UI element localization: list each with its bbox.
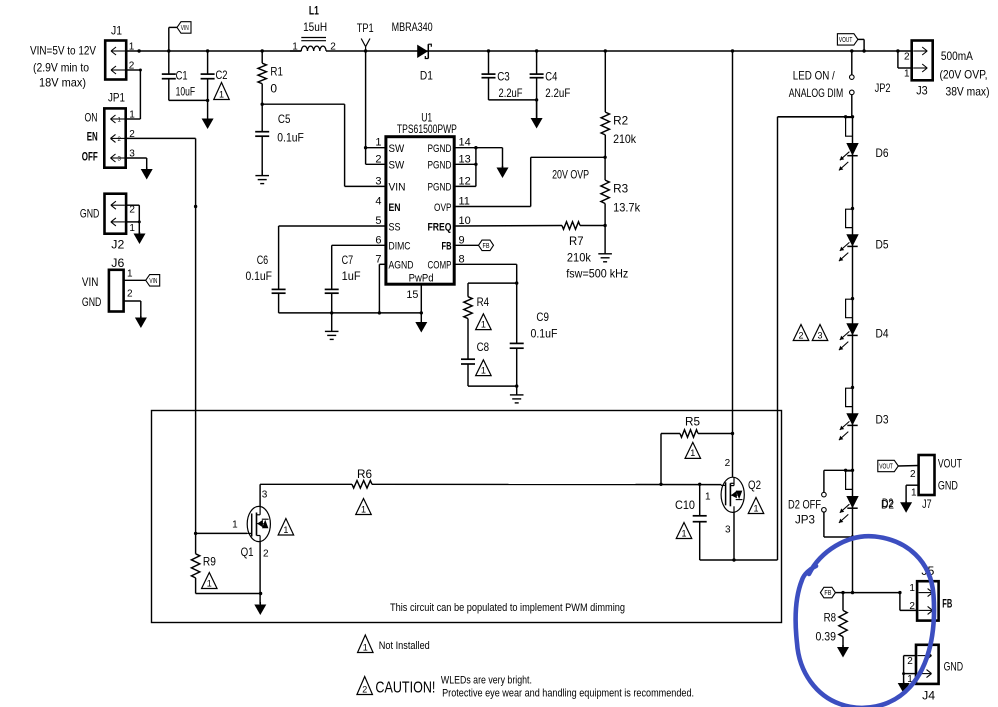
- wire - C3 bottom to C4 bottom: [489, 98, 539, 101]
- net label VOUT flag at top right: [837, 34, 865, 53]
- svg-text:VOUT: VOUT: [879, 464, 893, 471]
- svg-text:2: 2: [910, 469, 916, 480]
- wire - J3 pin1 to rail: [896, 49, 912, 68]
- svg-text:1: 1: [207, 578, 212, 588]
- node EN junction: [194, 205, 197, 208]
- wire - JP1 pin3 to ground: [126, 158, 147, 169]
- resistor jog above D6: [846, 118, 853, 137]
- capacitor C3 2.2uF: [482, 49, 523, 100]
- svg-text:1: 1: [681, 528, 686, 538]
- wire - Q1 drain to R6: [260, 484, 352, 506]
- svg-text:9: 9: [459, 234, 465, 246]
- svg-text:J3: J3: [916, 84, 928, 98]
- warning triangle 1 at C10: [676, 523, 692, 539]
- node JP3 top junction: [844, 469, 854, 472]
- svg-text:J4: J4: [922, 689, 935, 703]
- svg-text:1: 1: [129, 223, 135, 234]
- connector J7 VOUT/GND: [910, 455, 962, 511]
- svg-text:OFF: OFF: [82, 150, 98, 164]
- svg-text:C2: C2: [216, 68, 228, 82]
- ground arrow at J6 pin2: [135, 316, 147, 328]
- U1 PwPd pad label: [406, 273, 433, 301]
- svg-text:JP2: JP2: [875, 81, 891, 95]
- svg-text:1: 1: [911, 487, 917, 498]
- svg-text:PwPd: PwPd: [409, 273, 434, 285]
- svg-text:J6: J6: [111, 256, 124, 270]
- svg-text:D1: D1: [420, 68, 433, 82]
- U1 left pin numbers 1-7: [375, 137, 381, 266]
- wire - PGND pins 14,13,12 tied: [454, 146, 477, 186]
- wire - R1 bottom to U1 VIN pin: [262, 104, 386, 186]
- svg-text:38V max): 38V max): [946, 85, 990, 99]
- svg-text:J2: J2: [111, 237, 124, 251]
- capacitor C10 (not installed): [675, 483, 707, 560]
- svg-text:(20V OVP,: (20V OVP,: [940, 67, 988, 81]
- warning triangle note 1: [358, 635, 374, 653]
- svg-text:C10: C10: [675, 498, 695, 512]
- svg-text:R4: R4: [477, 295, 490, 309]
- svg-text:D3: D3: [876, 412, 889, 426]
- resistor R6 (not installed): [352, 467, 372, 488]
- text PWM dimming note: [390, 602, 625, 614]
- warning triangle 1 at R6: [356, 499, 372, 515]
- svg-text:VIN: VIN: [149, 278, 157, 285]
- svg-text:1: 1: [481, 319, 486, 329]
- wire - J4 pins tied to ground: [902, 656, 916, 683]
- resistor jog above D2: [846, 471, 853, 489]
- warning triangle 1 at R4: [476, 314, 492, 330]
- svg-text:D5: D5: [876, 238, 889, 252]
- svg-text:13: 13: [459, 153, 471, 165]
- svg-text:3: 3: [118, 157, 122, 163]
- LED D6: [839, 143, 889, 170]
- LED D4: [839, 323, 889, 350]
- svg-text:FB: FB: [824, 590, 831, 597]
- svg-text:1: 1: [481, 365, 486, 375]
- svg-text:VIN: VIN: [82, 275, 99, 289]
- resistor jog above D4: [846, 299, 853, 318]
- wire - COMP node to R4 branch: [468, 283, 517, 297]
- svg-text:PGND: PGND: [428, 160, 452, 172]
- wire - gate wire to Q1: [196, 532, 248, 534]
- svg-text:8: 8: [459, 253, 465, 265]
- resistor R7 210k: [454, 222, 628, 281]
- svg-text:R3: R3: [613, 181, 628, 195]
- node above D4: [851, 297, 854, 300]
- LED string wire: [852, 117, 854, 593]
- connector J2 GND: [80, 194, 135, 252]
- svg-text:Q2: Q2: [748, 478, 761, 492]
- wire - C1 bottom to C2 bottom: [169, 99, 210, 102]
- diode D1 MBRA340 schottky: [392, 20, 434, 82]
- svg-text:L1: L1: [309, 3, 319, 17]
- ground arrow at Q1 source: [254, 602, 266, 615]
- svg-text:SW: SW: [389, 160, 405, 172]
- PWM dimming circuit box: [152, 411, 782, 623]
- svg-text:0: 0: [270, 81, 277, 95]
- svg-text:R1: R1: [270, 64, 283, 78]
- svg-text:J7: J7: [922, 497, 932, 511]
- connector JP1 ON/EN/OFF: [82, 91, 135, 168]
- svg-text:C7: C7: [342, 253, 354, 267]
- svg-text:CAUTION!: CAUTION!: [375, 679, 435, 696]
- svg-text:1: 1: [690, 448, 695, 458]
- svg-text:VOUT: VOUT: [938, 457, 962, 471]
- svg-text:C4: C4: [545, 69, 557, 83]
- warning triangle 1 at C8: [476, 360, 492, 376]
- svg-text:1: 1: [292, 41, 298, 52]
- LED D5: [839, 234, 889, 261]
- svg-text:6: 6: [375, 234, 381, 246]
- node R1/C5/VIN junction: [261, 103, 264, 106]
- ground arrow at J4: [898, 682, 910, 694]
- capacitor C7 1uF: [325, 245, 386, 313]
- node JP3 bottom junction: [851, 535, 854, 538]
- IC U1 TPS61500PWP: [386, 111, 457, 285]
- svg-text:2: 2: [907, 656, 913, 667]
- resistor jog above D5: [846, 209, 853, 227]
- svg-text:3: 3: [817, 330, 822, 340]
- svg-text:fsw=500 kHz: fsw=500 kHz: [566, 267, 628, 281]
- transistor Q2 (not installed): [705, 458, 761, 536]
- test point TP1: [357, 21, 374, 51]
- svg-text:10: 10: [459, 215, 471, 227]
- warning triangle note 2: [357, 677, 373, 695]
- node R5/gate junction: [659, 483, 662, 486]
- svg-text:2: 2: [362, 684, 367, 694]
- svg-text:C5: C5: [278, 112, 291, 126]
- node VIN junction at J1 pin1: [137, 49, 140, 52]
- node Q1 gate junction: [194, 532, 197, 535]
- wire - R9 bottom to Q1 source: [196, 593, 261, 595]
- svg-text:12: 12: [459, 175, 471, 187]
- svg-text:0.1uF: 0.1uF: [277, 130, 304, 144]
- ground arrow at J2: [134, 232, 146, 244]
- wire - R4 to C8: [467, 319, 469, 360]
- svg-text:5: 5: [375, 215, 381, 227]
- svg-text:GND: GND: [938, 479, 958, 493]
- svg-text:1: 1: [129, 110, 135, 121]
- svg-text:DIMC: DIMC: [389, 241, 411, 253]
- svg-text:D6: D6: [876, 146, 889, 160]
- LED D3: [839, 412, 889, 440]
- svg-text:1: 1: [127, 268, 133, 279]
- svg-text:JP3: JP3: [795, 512, 815, 526]
- svg-text:EN: EN: [87, 130, 98, 144]
- svg-text:2.2uF: 2.2uF: [545, 86, 570, 100]
- svg-text:10uF: 10uF: [176, 85, 196, 99]
- wire - JP1 pin2 EN net to EN column: [126, 138, 196, 206]
- resistor R9 (not installed): [191, 533, 216, 593]
- svg-text:MBRA340: MBRA340: [392, 20, 433, 34]
- ground arrow at U1 pad 15: [415, 313, 427, 333]
- svg-text:14: 14: [459, 137, 471, 149]
- svg-text:TP1: TP1: [357, 21, 374, 35]
- net label FB flag at U1 pin 9: [454, 240, 493, 251]
- capacitor C5 0.1uF: [255, 104, 304, 175]
- wire - FB node: [841, 591, 901, 594]
- svg-text:20V OVP: 20V OVP: [552, 167, 589, 181]
- wire - AGND pin 7 down to bus: [379, 264, 386, 313]
- wire - analog ground bus: [279, 311, 423, 314]
- ground - earth symbol below C5: [255, 170, 269, 184]
- svg-text:R7: R7: [569, 234, 584, 248]
- wire - COMP pin 8 network: [454, 264, 517, 283]
- svg-text:3: 3: [725, 524, 731, 535]
- svg-text:FB: FB: [442, 241, 452, 253]
- svg-text:15uH: 15uH: [303, 20, 327, 34]
- svg-text:1: 1: [232, 520, 238, 531]
- svg-text:2: 2: [725, 458, 731, 469]
- wire - SW node down to U1 pins 1-2: [364, 51, 386, 164]
- svg-text:ANALOG DIM: ANALOG DIM: [789, 86, 844, 100]
- connector J1: [105, 24, 135, 80]
- svg-text:(2.9V min to: (2.9V min to: [33, 60, 89, 74]
- svg-text:0.39: 0.39: [816, 629, 837, 643]
- node COMP top junction: [515, 281, 518, 284]
- hand-drawn blue circle annotation: [796, 536, 934, 707]
- node above D3: [851, 386, 854, 389]
- wire - main VIN/VOUT top rail: [126, 50, 912, 52]
- svg-text:VIN: VIN: [389, 182, 406, 194]
- svg-text:D4: D4: [876, 326, 889, 340]
- svg-text:Not Installed: Not Installed: [379, 640, 430, 652]
- svg-text:2: 2: [798, 330, 803, 340]
- node R3/R7 junction: [603, 224, 606, 227]
- resistor R1 0 ohm: [258, 49, 283, 104]
- text CAUTION: [375, 679, 435, 696]
- svg-text:2.2uF: 2.2uF: [499, 86, 523, 100]
- svg-text:13.7k: 13.7k: [613, 200, 641, 214]
- svg-text:R8: R8: [824, 610, 837, 624]
- wire - J6 pin1 to VIN flag: [124, 279, 146, 281]
- ground arrow at J7 pin1: [882, 496, 912, 513]
- node above D5: [851, 207, 854, 210]
- wire - PGND to ground arrow: [476, 148, 503, 168]
- connector J6 VIN/GND: [82, 256, 133, 312]
- text Not Installed: [379, 640, 430, 652]
- svg-text:2: 2: [129, 205, 135, 216]
- svg-text:1: 1: [705, 491, 711, 502]
- svg-text:PGND: PGND: [428, 182, 452, 194]
- resistor R8 0.39: [816, 593, 848, 647]
- text 20V OVP: [552, 167, 589, 181]
- text 500mA output note: [940, 49, 990, 98]
- node R2/R3 junction: [603, 156, 606, 159]
- svg-text:C1: C1: [176, 69, 188, 83]
- wire - J6 pin2 to ground: [124, 301, 141, 318]
- svg-text:R5: R5: [685, 414, 700, 428]
- svg-text:1: 1: [219, 89, 224, 99]
- resistor R2 210k: [601, 49, 637, 157]
- capacitor C4 2.2uF: [530, 49, 571, 118]
- wire - LED anode branch to PWM circuit: [778, 115, 855, 560]
- svg-text:2: 2: [118, 137, 122, 143]
- warning triangle 1 at R5: [685, 442, 701, 458]
- svg-text:AGND: AGND: [389, 260, 414, 272]
- ground arrow at PGND: [497, 166, 509, 178]
- svg-text:J1: J1: [111, 24, 122, 38]
- net label VIN flag at J6: [146, 275, 160, 287]
- warning triangle 1 at R9: [202, 573, 218, 589]
- svg-text:11: 11: [459, 196, 470, 208]
- svg-text:GND: GND: [82, 295, 102, 309]
- capacitor C8 (not installed): [461, 340, 489, 364]
- svg-text:FREQ: FREQ: [428, 221, 452, 233]
- svg-text:Protective eye wear and handli: Protective eye wear and handling equipme…: [442, 687, 694, 699]
- svg-text:SW: SW: [389, 143, 405, 155]
- resistor jog above D3: [846, 388, 853, 406]
- connector J3: [904, 41, 933, 98]
- svg-text:R6: R6: [357, 467, 372, 481]
- node TP1/SW junction: [364, 49, 367, 52]
- svg-text:FB: FB: [483, 243, 490, 250]
- ground arrow below C3/C4: [531, 100, 543, 129]
- svg-text:4: 4: [375, 196, 381, 208]
- ground - earth symbol below R3: [598, 226, 612, 262]
- svg-text:ON: ON: [85, 111, 98, 125]
- capacitor C1 10uF: [162, 51, 195, 100]
- wire - VOUT rail down to Q2 drain: [731, 49, 734, 477]
- svg-text:LED ON /: LED ON /: [793, 69, 836, 83]
- wire - C8 bottom to ground node: [468, 364, 517, 386]
- ground - earth symbol below C7: [325, 313, 339, 340]
- svg-text:R2: R2: [613, 113, 628, 127]
- svg-text:2: 2: [330, 42, 336, 53]
- svg-text:1: 1: [283, 525, 288, 535]
- svg-text:GND: GND: [944, 659, 964, 673]
- wire - Q1 source down: [259, 541, 261, 604]
- svg-text:1: 1: [909, 583, 915, 594]
- svg-text:1: 1: [904, 68, 910, 79]
- svg-text:210k: 210k: [567, 250, 592, 264]
- svg-text:JP1: JP1: [108, 91, 125, 105]
- svg-text:0.1uF: 0.1uF: [246, 269, 273, 283]
- wire - J5 pin2 tied to FB: [900, 593, 917, 611]
- ground - earth symbol below C9 node: [510, 386, 524, 403]
- svg-text:2: 2: [263, 549, 269, 560]
- svg-text:C6: C6: [257, 253, 269, 267]
- U1 right pin numbers 8-14: [459, 137, 471, 266]
- warning triangle 1 at C2: [214, 83, 230, 100]
- svg-text:1: 1: [361, 504, 366, 514]
- svg-text:GND: GND: [80, 206, 100, 220]
- inductor L1 15uH: [290, 3, 336, 52]
- svg-text:COMP: COMP: [428, 260, 452, 272]
- svg-text:TPS61500PWP: TPS61500PWP: [397, 122, 457, 136]
- LED D2: [839, 496, 894, 523]
- wire - J7 pin1 to ground: [906, 485, 919, 502]
- transistor Q1 (not installed): [232, 490, 270, 560]
- resistor R5 (not installed): [661, 414, 733, 484]
- svg-text:1uF: 1uF: [342, 269, 361, 283]
- U1 left pin names: [389, 143, 414, 272]
- svg-text:7: 7: [375, 253, 381, 265]
- U1 right pin names: [428, 143, 452, 272]
- wire - R6 to Q2 gate node: [372, 483, 721, 485]
- capacitor C2 (not installed): [201, 49, 228, 82]
- warning triangles 2 and 3 at LED string: [793, 325, 828, 341]
- svg-text:1: 1: [129, 42, 135, 53]
- svg-text:D2 OFF: D2 OFF: [788, 497, 821, 511]
- svg-text:1: 1: [753, 503, 758, 513]
- svg-text:1: 1: [118, 118, 122, 124]
- warning triangle 1 at Q2: [748, 498, 764, 514]
- wire - J1 pin2 to JP1 pin1: [126, 69, 142, 120]
- net label VIN flag at top: [167, 22, 191, 53]
- svg-text:2: 2: [375, 153, 381, 165]
- node R5/drain junction: [731, 432, 734, 435]
- svg-text:OVP: OVP: [434, 202, 452, 214]
- svg-text:210k: 210k: [613, 132, 637, 146]
- svg-text:2: 2: [904, 52, 910, 63]
- ground arrow at JP1 pin3: [141, 167, 153, 180]
- svg-text:VIN=5V to 12V: VIN=5V to 12V: [30, 44, 96, 58]
- svg-text:VOUT: VOUT: [839, 37, 853, 44]
- svg-text:VIN: VIN: [181, 25, 189, 32]
- warning triangle 1 at Q1: [278, 519, 294, 536]
- svg-text:0.1uF: 0.1uF: [531, 326, 558, 340]
- svg-text:D2: D2: [882, 496, 894, 510]
- svg-text:C8: C8: [477, 340, 490, 354]
- svg-text:2: 2: [127, 289, 133, 300]
- svg-text:FB: FB: [942, 596, 952, 610]
- svg-text:500mA: 500mA: [941, 49, 973, 63]
- ground arrow below R8: [837, 645, 849, 658]
- wire - EN column down to PWM circuit: [195, 207, 197, 534]
- svg-text:3: 3: [375, 175, 381, 187]
- svg-text:C3: C3: [497, 69, 510, 83]
- text WLED warning: [441, 674, 694, 699]
- ground arrow below C2: [202, 79, 214, 129]
- resistor R3 13.7k: [601, 157, 641, 225]
- svg-text:This circuit can be populated: This circuit can be populated to impleme…: [390, 602, 625, 614]
- svg-text:1: 1: [375, 137, 381, 149]
- node Q1 source junction: [259, 592, 262, 595]
- svg-text:3: 3: [262, 490, 268, 501]
- connector J5 FB: [909, 564, 952, 621]
- jumper JP2 LED ON / ANALOG DIM: [850, 49, 891, 117]
- svg-text:R9: R9: [203, 554, 216, 568]
- svg-text:18V max): 18V max): [39, 76, 86, 90]
- node C9 bottom junction: [515, 384, 518, 387]
- net label VOUT flag at J7: [878, 460, 919, 471]
- svg-text:EN: EN: [389, 202, 401, 214]
- wire - OVP pin 11 to R2/R3 junction: [454, 157, 605, 206]
- connector J4 GND: [907, 645, 963, 703]
- wire - J2 pins tied to ground: [126, 205, 141, 233]
- wire - C10 bottom / Q2 source / LED branch: [700, 512, 778, 562]
- svg-text:Q1: Q1: [241, 545, 254, 559]
- svg-text:C9: C9: [536, 310, 549, 324]
- wire - U1 pad 15 to bus: [420, 284, 422, 313]
- text VIN=5V to 12V note: [30, 44, 96, 90]
- jumper JP3 D2 OFF: [788, 470, 853, 537]
- svg-text:SS: SS: [389, 221, 401, 233]
- svg-text:1: 1: [363, 642, 368, 652]
- net label FB flag at sense node: [820, 587, 843, 598]
- resistor R4 (not installed): [464, 295, 490, 319]
- svg-text:WLEDs are very bright.: WLEDs are very bright.: [441, 674, 532, 686]
- svg-text:PGND: PGND: [428, 143, 452, 155]
- capacitor C9 0.1uF: [510, 283, 558, 386]
- svg-text:15: 15: [406, 289, 418, 301]
- text LED ON / ANALOG DIM: [789, 69, 844, 100]
- capacitor C6 0.1uF: [246, 226, 386, 313]
